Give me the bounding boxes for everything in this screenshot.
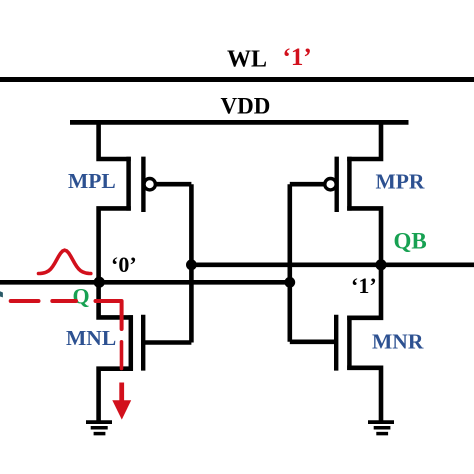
wire node QB horizontal line — [191, 262, 474, 267]
svg-text:MNL: MNL — [66, 326, 116, 350]
wire VDD rail — [70, 120, 409, 125]
junction left gate on QB line — [186, 259, 197, 270]
wire right cross-coupling vertical (gates of MPR/MNR) — [287, 184, 292, 342]
red discharge current arrow shaft — [119, 383, 124, 405]
transistor MPL drain arm and drain stub down to node Q — [99, 208, 131, 282]
svg-text:MPL: MPL — [68, 169, 116, 193]
transistor MNR gate bar — [334, 315, 338, 371]
ground (right) — [368, 422, 394, 434]
transistor MPR gate bar — [335, 157, 339, 212]
transistor MNL source arm and stub down to ground — [99, 369, 133, 422]
wire MPL gate to cross-coupling — [155, 182, 191, 187]
transistor MPL channel bar — [126, 157, 131, 211]
noise glitch pulse (red bell curve) at node Q — [39, 250, 91, 273]
wire MNL gate to cross-coupling — [143, 340, 191, 345]
svg-text:‘0’: ‘0’ — [111, 252, 137, 277]
red discharge current arrow head — [112, 400, 131, 419]
transistor MNL gate bar — [141, 315, 145, 371]
transistor MPL (PMOS) source stub and source arm — [99, 120, 131, 159]
ground (left) — [86, 422, 112, 434]
junction node Q — [94, 277, 105, 288]
wire WL word line — [0, 77, 474, 82]
svg-text:WL: WL — [227, 47, 267, 73]
red dashed discharge path: horizontal dash 2 — [52, 299, 76, 303]
wire MPR gate to cross-coupling — [290, 182, 325, 187]
transistor MNR channel bar — [347, 316, 352, 370]
transistor MPR drain arm and drain stub down to node QB — [347, 208, 381, 264]
wire node Q horizontal line — [0, 280, 290, 285]
transistor MNL (NMOS) drain stub and drain arm — [99, 282, 133, 317]
wire MNR gate to cross-coupling — [290, 339, 336, 344]
svg-text:QB: QB — [394, 229, 427, 254]
transistor MPL bubble — [144, 179, 155, 190]
transistor MNR (NMOS) drain stub and drain arm — [347, 265, 381, 318]
transistor MPR channel bar — [347, 157, 352, 211]
transistor MNL channel bar — [129, 315, 134, 371]
red dashed discharge path: vertical dash through MNL — [120, 342, 124, 369]
svg-text:MPR: MPR — [376, 170, 425, 194]
svg-text:‘1’: ‘1’ — [351, 273, 377, 298]
svg-text:Q: Q — [73, 284, 90, 309]
truncated label at left edge (teal) — [0, 291, 3, 297]
red discharge path elbow into MNL — [96, 301, 122, 329]
svg-text:‘1’: ‘1’ — [283, 44, 312, 71]
transistor MNR source arm and stub down to ground — [347, 368, 381, 422]
junction right gate on Q line — [284, 277, 295, 288]
transistor MPR bubble — [325, 179, 336, 190]
svg-text:MNR: MNR — [372, 330, 424, 354]
transistor MPR (PMOS) source stub and source arm — [347, 120, 381, 159]
red dashed discharge path: horizontal dash 1 — [11, 299, 39, 303]
wire left cross-coupling vertical (gates of MPL/MNL) — [189, 184, 194, 342]
junction node QB — [375, 259, 386, 270]
svg-text:VDD: VDD — [221, 94, 271, 119]
transistor MPL gate bar — [141, 157, 145, 212]
